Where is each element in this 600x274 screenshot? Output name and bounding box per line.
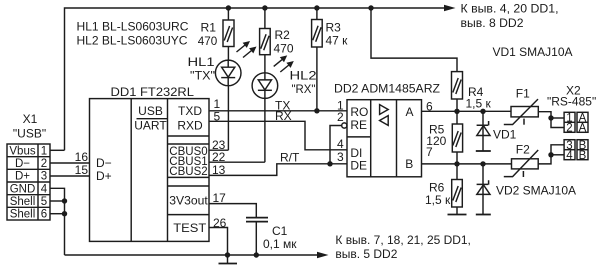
svg-text:TEST: TEST: [173, 221, 207, 235]
resistor R5 120 between A and B: [426, 111, 462, 164]
node junction dot Shell5: [62, 198, 67, 203]
resistor R3 47 к: [312, 8, 349, 111]
svg-text:DE: DE: [350, 158, 367, 172]
wire X1 pin6 Shell stub: [50, 213, 65, 215]
svg-text:RX: RX: [275, 109, 292, 123]
svg-text:Vbus: Vbus: [9, 145, 35, 157]
resistor R4 1,5 к with feed wire from top rail: [371, 8, 492, 111]
svg-text:VD2 SMAJ10A: VD2 SMAJ10A: [496, 184, 576, 198]
svg-text:Shell: Shell: [10, 196, 36, 208]
svg-text:120: 120: [426, 134, 446, 148]
svg-text:выв. 8 DD2: выв. 8 DD2: [461, 16, 524, 30]
svg-text:2: 2: [337, 110, 344, 124]
svg-text:GND: GND: [10, 183, 36, 195]
wire 0V bottom rail: [65, 254, 318, 256]
LED HL2 "RX": [252, 55, 317, 163]
node junction dot R3 top: [314, 5, 319, 10]
node junction dot R1 top: [226, 5, 231, 10]
svg-text:17: 17: [213, 191, 227, 205]
capacitor C1 0,1 мк: [246, 218, 297, 255]
wire +5V top rail: [65, 8, 446, 150]
node junction dot R3 at TX line: [314, 108, 319, 113]
connector X2 "RS-485": [547, 84, 596, 162]
svg-text:выв. 5 DD2: выв. 5 DD2: [335, 247, 397, 261]
svg-text:R1: R1: [201, 21, 217, 35]
svg-text:A: A: [579, 123, 587, 135]
wire X1 pin2 D- to DD1 pin16: [50, 162, 90, 164]
svg-text:1: 1: [41, 145, 47, 157]
svg-text:5: 5: [214, 110, 221, 124]
svg-text:D+: D+: [96, 169, 112, 183]
svg-text:4: 4: [41, 183, 48, 195]
resistor R1 470: [198, 8, 234, 48]
node bottom rail arrow to К выв. 7, 18, 21, 25 DD1: [317, 233, 471, 261]
wire X2 pins 1,2 bus: [551, 118, 564, 128]
wire X1 pin3 D+ to DD1 pin15: [50, 175, 90, 177]
wire DD1 pin5 RXD to DD2 DI (RX line): [209, 109, 347, 150]
svg-text:HL2: HL2: [290, 69, 317, 83]
node DD2 pin2 label + RE inversion circle and wire to R/T: [330, 110, 347, 164]
svg-text:"TX": "TX": [190, 69, 215, 83]
ground symbol below R6: [448, 214, 467, 216]
svg-text:UART: UART: [134, 119, 167, 133]
node junction dot R2 top: [262, 5, 267, 10]
svg-text:5: 5: [41, 196, 47, 208]
svg-text:26: 26: [213, 216, 227, 230]
fuse F2: [504, 143, 551, 178]
svg-text:R/T: R/T: [280, 151, 300, 165]
node top rail arrow to К выв. 4, 20 DD1: [444, 2, 559, 31]
node junction dots on A line: [454, 109, 459, 114]
svg-text:R2: R2: [275, 28, 291, 42]
ground symbol at 0V rail: [219, 255, 238, 264]
svg-text:К выв. 7, 18, 21, 25 DD1,: К выв. 7, 18, 21, 25 DD1,: [335, 233, 471, 247]
LED HL1 "TX": [188, 41, 257, 150]
svg-text:2: 2: [566, 123, 572, 135]
svg-text:DD2 ADM1485ARZ: DD2 ADM1485ARZ: [334, 82, 440, 96]
svg-text:15: 15: [75, 163, 89, 177]
node junction dot X2 A bus: [548, 115, 553, 120]
wire line A from DD2 pin6 to F1: [422, 110, 512, 112]
svg-text:X1: X1: [23, 112, 38, 126]
node junction dot X2 B bus: [548, 152, 553, 157]
wire X1 pin4 GND stub and riser down to 0V rail: [50, 188, 65, 255]
svg-text:D−: D−: [96, 156, 112, 170]
node junction dot Shell6: [62, 211, 67, 216]
svg-text:D+: D+: [15, 171, 30, 183]
svg-text:F1: F1: [516, 87, 530, 101]
resistor R6 1,5 к from B to ground: [425, 164, 462, 215]
svg-text:R3: R3: [326, 21, 342, 35]
svg-text:1,5 к: 1,5 к: [466, 97, 492, 111]
svg-text:"USB": "USB": [13, 127, 46, 141]
wire X2 pins 3,4 bus: [551, 145, 564, 155]
svg-text:A: A: [406, 105, 414, 119]
svg-text:HL2 BL-LS0603UYC: HL2 BL-LS0603UYC: [77, 34, 188, 48]
wire DD1 pin1 TXD to DD2 RO (TX line): [209, 97, 347, 113]
wire DD1 pin26 TEST to 0V rail: [209, 216, 228, 255]
svg-text:"RS-485": "RS-485": [547, 95, 596, 109]
svg-text:Shell: Shell: [10, 209, 36, 221]
svg-text:3: 3: [41, 171, 47, 183]
svg-text:TXD: TXD: [178, 104, 202, 118]
svg-text:D−: D−: [15, 158, 30, 170]
node junction dots on B line: [454, 161, 459, 166]
svg-text:C1: C1: [272, 224, 288, 238]
svg-text:B: B: [405, 157, 413, 171]
svg-text:470: 470: [274, 42, 294, 56]
TVS diode VD1 SMAJ10A from A to ground: [476, 111, 517, 151]
wire DD1 pin13 CBUS2 R/T line to DD2 DE: [209, 151, 347, 178]
svg-text:B: B: [579, 150, 587, 162]
IC DD1 FT232RL: [90, 85, 210, 241]
svg-text:RXD: RXD: [177, 119, 203, 133]
node HL1/HL2 type list: [77, 20, 189, 48]
wire X1 pin1 Vbus stub: [50, 149, 65, 151]
IC DD2 ADM1485ARZ: [334, 82, 440, 177]
svg-text:3V3out: 3V3out: [169, 194, 208, 208]
svg-text:RE: RE: [350, 118, 367, 132]
svg-text:3: 3: [337, 150, 344, 164]
node junction dot RE/DE at R/T line: [327, 161, 332, 166]
connector X1 "USB": [7, 112, 50, 221]
svg-text:VD1 SMAJ10A: VD1 SMAJ10A: [493, 45, 573, 59]
wire DD1 pin17 3V3out to C1: [209, 191, 256, 217]
svg-text:470: 470: [198, 34, 218, 48]
node junction dot R4 branch: [368, 5, 373, 10]
svg-text:CBUS2: CBUS2: [169, 166, 207, 178]
TVS diode VD2 SMAJ10A from B to ground: [476, 164, 576, 215]
svg-text:22: 22: [212, 150, 226, 164]
resistor R2 470: [260, 8, 294, 56]
svg-text:VD1: VD1: [493, 128, 517, 142]
svg-text:USB: USB: [138, 104, 163, 118]
svg-text:6: 6: [41, 209, 47, 221]
svg-text:F2: F2: [516, 143, 530, 157]
svg-text:"RX": "RX": [292, 82, 316, 96]
svg-text:4: 4: [566, 150, 573, 162]
svg-text:0,1 мк: 0,1 мк: [263, 237, 297, 251]
svg-text:13: 13: [212, 163, 226, 177]
node junction dot C1 at rail: [254, 252, 259, 257]
svg-text:1,5 к: 1,5 к: [425, 193, 451, 207]
wire X1 pin5 Shell stub: [50, 200, 65, 202]
wire line B from DD2 pin7 to F2: [422, 163, 512, 165]
svg-text:16: 16: [75, 150, 89, 164]
svg-text:HL1: HL1: [188, 55, 215, 69]
svg-text:DD1 FT232RL: DD1 FT232RL: [111, 85, 195, 99]
svg-text:47 к: 47 к: [326, 34, 349, 48]
svg-text:К выв. 4, 20 DD1,: К выв. 4, 20 DD1,: [461, 2, 559, 16]
svg-text:HL1 BL-LS0603URC: HL1 BL-LS0603URC: [77, 20, 189, 34]
node junction dot TEST at rail: [225, 252, 230, 257]
wire DD1 pin23 CBUS0: [209, 138, 228, 152]
wire DD1 pin22 CBUS1: [209, 150, 265, 164]
svg-text:2: 2: [41, 158, 47, 170]
fuse F1: [504, 87, 551, 125]
